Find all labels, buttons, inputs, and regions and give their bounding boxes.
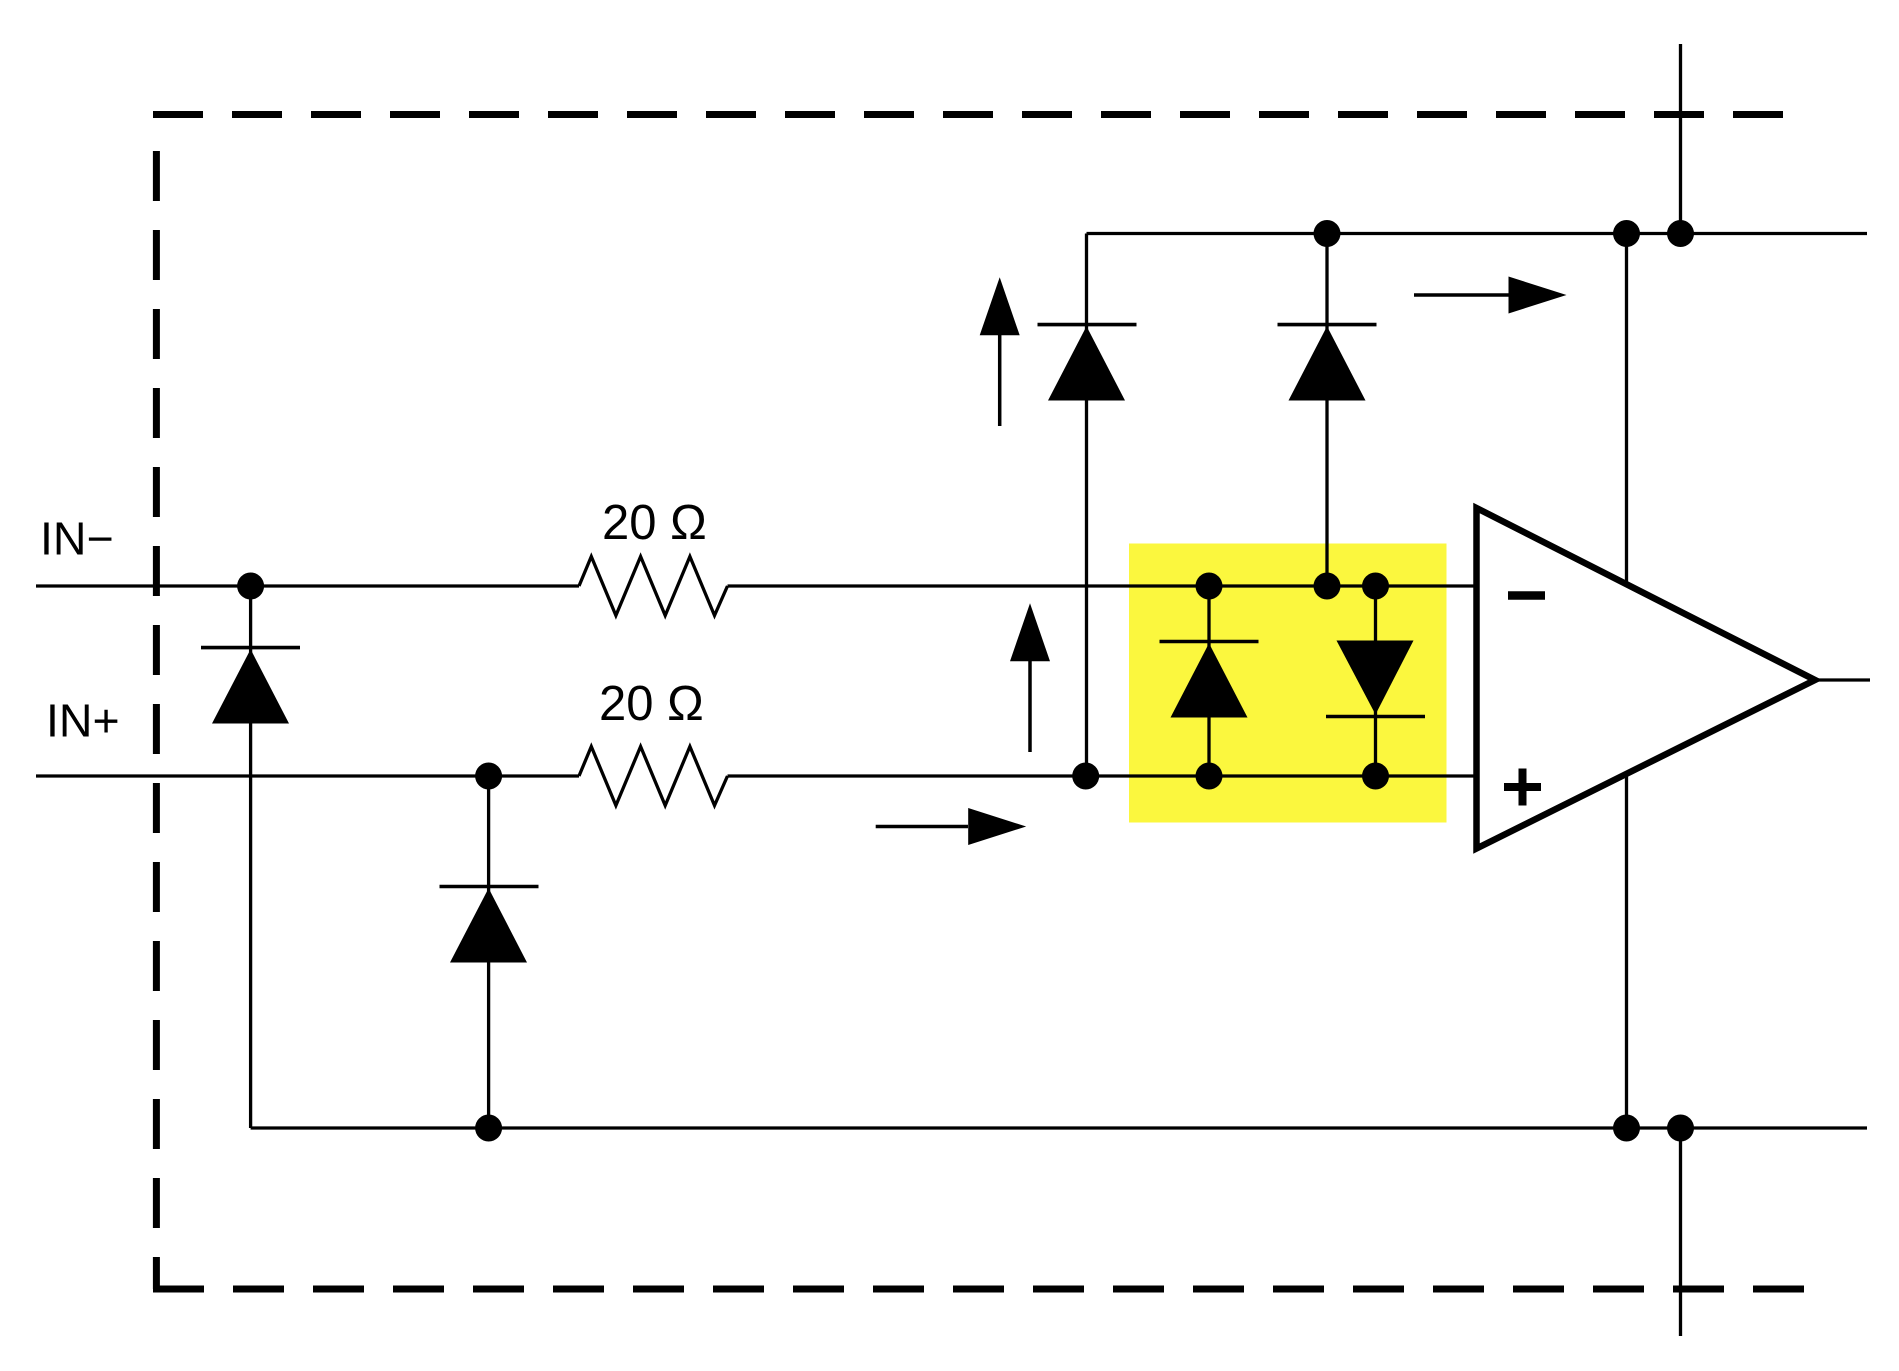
resistor R2 20 ohm on IN+ line [579, 747, 728, 806]
node IN- at clamp D6 [1362, 573, 1389, 600]
node IN+ at diode D3 branch [1072, 763, 1099, 790]
arrow current right below IN+ line [876, 808, 1026, 845]
svg-text:IN+: IN+ [46, 695, 120, 747]
wire vertical from top rail through diode D3 to IN+ node [1085, 234, 1088, 777]
op-amp inverting input minus symbol [1508, 591, 1545, 600]
node top rail at supply column [1613, 220, 1640, 247]
node IN+ at clamp D5 [1196, 763, 1223, 790]
node bottom rail at diode D2 [475, 1115, 502, 1142]
wire IN- input line [36, 584, 579, 587]
package boundary dashed bottom edge [153, 1286, 1806, 1293]
wire bottom supply stub crossing package border [1679, 1128, 1682, 1336]
svg-text:20 Ω: 20 Ω [602, 496, 707, 550]
svg-text:20 Ω: 20 Ω [599, 677, 704, 731]
package boundary dashed left edge [153, 151, 160, 1289]
wire bottom negative supply rail [251, 1126, 1867, 1129]
wire vertical from IN- node through diode D1 to bottom rail [249, 586, 252, 1128]
node bottom rail at supply column [1613, 1115, 1640, 1142]
diode D1 IN- to bottom rail [201, 648, 300, 724]
node IN- entry junction [237, 573, 264, 600]
wire vertical from IN+ node through diode D2 to bottom rail [487, 776, 490, 1128]
wire top supply stub crossing package border [1679, 44, 1682, 234]
diode D4 top rail to IN- [1278, 325, 1377, 401]
wire IN+ input line [36, 774, 579, 777]
diode D5 clamp IN+ to IN- (highlighted) [1160, 642, 1259, 718]
node bottom rail at package stub [1667, 1115, 1694, 1142]
svg-text:IN−: IN− [40, 513, 114, 565]
wire IN+ line after resistor to op-amp non-inverting input [728, 774, 1481, 777]
diode D3 top rail to IN+ [1038, 325, 1137, 401]
highlight box around internal clamp diodes [1129, 544, 1447, 823]
node IN+ at clamp D6 [1362, 763, 1389, 790]
arrow current right on top rail [1414, 277, 1567, 314]
op-amp U1 [1477, 508, 1816, 849]
package boundary dashed top edge [153, 111, 1810, 118]
diode D6 clamp IN- to IN+ (highlighted) [1326, 641, 1425, 717]
op-amp non-inverting input plus symbol [1504, 769, 1541, 806]
node top rail at package stub [1667, 220, 1694, 247]
wire vertical clamp diode D5 branch [1207, 586, 1210, 776]
wire vertical from top rail through diode D4 to IN- node [1325, 234, 1328, 587]
arrow current up beside diode D3 [980, 277, 1020, 426]
resistor R1 20 ohm on IN- line [579, 557, 728, 616]
wire supply line behind op-amp (node VCC to VEE column) [1625, 234, 1628, 1129]
node top rail at diode D4 [1314, 220, 1341, 247]
wire top positive supply rail [1087, 232, 1868, 235]
arrow current up beside clamp diodes [1010, 603, 1050, 752]
node IN- at diode D4 branch [1314, 573, 1341, 600]
wire op-amp output [1812, 678, 1870, 681]
wire vertical clamp diode D6 branch [1374, 586, 1377, 776]
node IN+ entry junction [475, 763, 502, 790]
wire IN- line after resistor to op-amp inverting input [728, 584, 1481, 587]
node IN- at clamp D5 [1196, 573, 1223, 600]
diode D2 IN+ to bottom rail [440, 887, 539, 963]
